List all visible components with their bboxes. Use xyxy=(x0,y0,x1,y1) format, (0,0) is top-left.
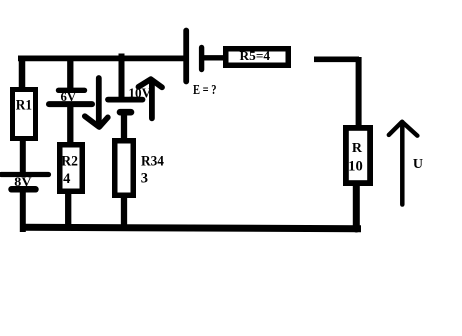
svg-text:U: U xyxy=(413,157,423,172)
battery 6V (top short plate) xyxy=(59,88,85,93)
resistor R5=4 xyxy=(226,48,289,65)
battery E (short plate) xyxy=(199,48,204,70)
battery 10V (top long plate) xyxy=(108,97,143,103)
wire: second branch upper segment xyxy=(67,56,73,92)
wire: stub from E to R5 xyxy=(204,55,226,60)
svg-text:4: 4 xyxy=(63,171,70,187)
battery 10V (bottom short plate) xyxy=(120,109,131,116)
wire: second branch lower segment xyxy=(65,191,71,230)
svg-text:R34: R34 xyxy=(141,154,164,170)
current arrow (up) beside 10V xyxy=(139,79,163,118)
svg-text:R1: R1 xyxy=(16,97,32,113)
resistor R value 10 xyxy=(346,128,370,183)
svg-text:3: 3 xyxy=(141,170,148,186)
wire: left branch upper segment xyxy=(19,56,26,90)
wire: right horizontal segment xyxy=(314,56,359,62)
wire: third branch lower segment xyxy=(121,195,127,230)
resistor R34 value 3 xyxy=(115,141,164,196)
battery E (long plate) xyxy=(183,31,189,82)
voltage arrow U (up) on right xyxy=(389,122,418,205)
svg-text:R2: R2 xyxy=(61,154,78,170)
wire: third branch between 10V and R34 xyxy=(121,110,127,141)
wire: third branch upper segment xyxy=(119,54,125,101)
wire: second branch between 6V and R2 xyxy=(67,103,73,145)
svg-text:8V: 8V xyxy=(14,174,32,189)
svg-text:E = ?: E = ? xyxy=(193,83,217,98)
wire: top horizontal bus xyxy=(18,56,186,62)
battery 6V (bottom long plate) xyxy=(49,101,92,107)
resistor R1 xyxy=(13,90,36,139)
wire: left branch lower segment xyxy=(20,187,26,232)
wire: bottom horizontal bus xyxy=(22,227,362,228)
resistor R2 value 4 xyxy=(60,145,83,192)
svg-text:R5=4: R5=4 xyxy=(240,48,271,63)
svg-text:R: R xyxy=(352,141,363,156)
current arrow (down) between 6V and 10V branches xyxy=(85,78,108,127)
wire: right branch upper segment xyxy=(356,57,362,128)
battery 8V (long plate) xyxy=(1,172,49,177)
svg-text:10: 10 xyxy=(348,158,363,174)
battery 8V (short plate) xyxy=(12,186,36,193)
wire: right branch lower segment xyxy=(353,184,360,229)
wire: left branch between R1 and 8V source xyxy=(20,139,26,176)
